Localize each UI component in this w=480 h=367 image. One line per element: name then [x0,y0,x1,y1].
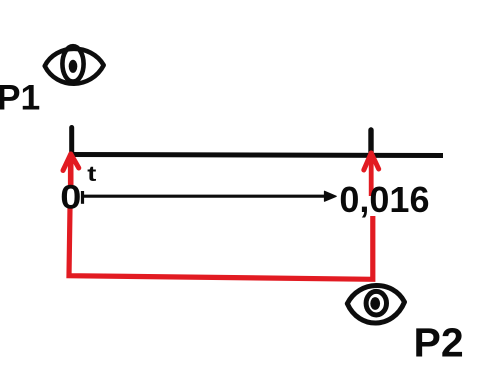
eye P2 pupil [370,297,380,310]
red arrow P2 stem [369,153,374,196]
tick t0 [69,128,74,158]
eye P1 iris ring [62,46,83,81]
measure arrow tail tick [81,191,84,204]
red path (0 down, across bottom, up to 0,016) [69,208,373,280]
svg-text:t: t [87,163,96,186]
eye P1 pupil [69,60,78,73]
svg-text:0: 0 [60,177,81,216]
eye P2 iris ring [366,291,386,315]
red arrow P1 stem [68,155,74,186]
eye P1 [45,46,104,84]
svg-text:P1: P1 [0,77,40,117]
svg-text:0,016: 0,016 [339,179,429,220]
red arrow P2 head left barb [364,153,371,170]
svg-text:P2: P2 [414,319,464,365]
tick t1 [368,130,373,157]
measure arrow line [83,195,333,198]
eye P2 almond outline [347,286,404,324]
red arrow P2 head right barb [371,153,379,169]
eye P1 almond outline [45,49,104,84]
eye P2 [347,286,404,324]
measure arrow head [325,191,337,201]
red arrow P1 head right barb [71,154,79,168]
timeline [69,155,443,156]
red arrow P1 head left barb [63,154,71,171]
